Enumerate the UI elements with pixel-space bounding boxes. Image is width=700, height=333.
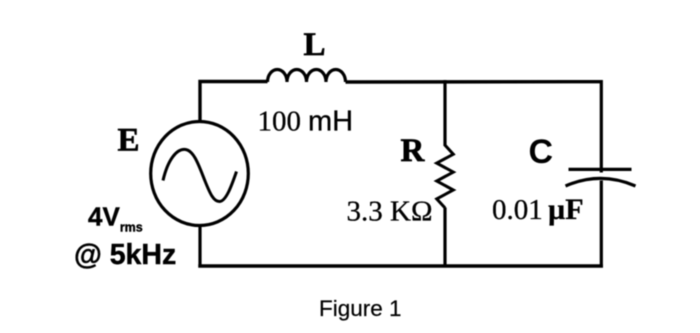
- svg-text:4Vrms: 4Vrms: [88, 202, 143, 235]
- svg-text:Figure 1: Figure 1: [319, 296, 402, 321]
- svg-text:3.3 KΩ: 3.3 KΩ: [347, 196, 433, 228]
- capacitor C curved plate: [566, 178, 636, 186]
- wire R branch top: [443, 80, 446, 146]
- svg-text:@ 5kHz: @ 5kHz: [74, 239, 176, 271]
- svg-text:C: C: [529, 133, 554, 171]
- capacitor C top plate: [569, 168, 632, 171]
- sine wave inside source: [163, 149, 237, 201]
- svg-text:100mH: 100mH: [258, 106, 354, 138]
- svg-text:0.01µF: 0.01µF: [492, 193, 584, 226]
- wire top right segment: [346, 80, 602, 84]
- wire source bottom: [198, 224, 201, 268]
- inductor L: [268, 70, 346, 83]
- svg-text:L: L: [304, 27, 326, 63]
- wire bottom: [198, 264, 603, 268]
- ac source E: [151, 122, 249, 226]
- svg-text:E: E: [118, 123, 140, 159]
- wire C branch bottom: [600, 181, 603, 268]
- svg-text:R: R: [401, 133, 426, 169]
- wire top left segment: [200, 82, 268, 124]
- wire R branch bottom: [443, 208, 446, 268]
- resistor R: [437, 145, 454, 208]
- wire C branch top: [600, 80, 603, 173]
